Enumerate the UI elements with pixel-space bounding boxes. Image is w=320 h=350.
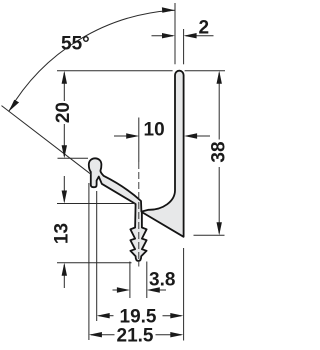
svg-text:55°: 55° bbox=[61, 34, 90, 55]
dimension line 10, left segment bbox=[114, 135, 137, 137]
arrowhead dim 19.5 right bbox=[170, 313, 183, 318]
arrowhead dim 13 bottom bbox=[62, 263, 67, 276]
dimension line 13, lower outside segment bbox=[63, 265, 65, 288]
arrowhead dim 21.5 left bbox=[89, 332, 102, 337]
arrowhead dim 19.5 left bbox=[97, 313, 110, 318]
55 degree reference line bbox=[2, 106, 92, 175]
dimension line 3.8, right outside segment bbox=[149, 289, 166, 291]
dimension line 20, upper segment bbox=[63, 73, 65, 101]
svg-text:19.5: 19.5 bbox=[120, 306, 157, 327]
svg-text:21.5: 21.5 bbox=[117, 325, 154, 346]
dimension line 20, lower segment bbox=[63, 124, 65, 156]
arrowhead dim 20 top bbox=[62, 71, 67, 84]
dimension line 38, upper segment bbox=[218, 73, 220, 140]
extension line wall right edge (for dim 2) bbox=[183, 29, 185, 64]
extension line bulb left (for dim 21.5) bbox=[88, 183, 90, 340]
dimension line 3.8, left outside segment bbox=[113, 289, 128, 291]
extension line wall left edge (for dim 2 and 55 deg arc) bbox=[174, 3, 176, 64]
arrowhead dim 2 right bbox=[184, 33, 197, 38]
extension line wall right lower (for dims 19.5 and 21.5) bbox=[183, 248, 185, 341]
55 degree dimension arc bbox=[9, 10, 175, 111]
extension line for dim 10 (barb axis, solid upper part) bbox=[138, 118, 140, 163]
extension line flange underside (for dim 13) bbox=[57, 203, 135, 205]
arrowhead dim 38 top bbox=[217, 71, 222, 84]
extension line barb right (for dim 3.8) bbox=[146, 262, 148, 299]
svg-text:38: 38 bbox=[208, 141, 229, 162]
extension line bulb top (for dim 20) bbox=[58, 157, 89, 159]
extension line barb tip (for dim 13) bbox=[57, 262, 132, 264]
arrowhead dim 3.8 right bbox=[147, 287, 160, 292]
dimension line 21.5, right segment bbox=[156, 334, 182, 336]
svg-text:13: 13 bbox=[52, 223, 73, 244]
svg-text:3.8: 3.8 bbox=[149, 270, 175, 291]
extension line wall top right (for dim 38) bbox=[185, 70, 225, 72]
arrowhead 55 deg arc bottom bbox=[9, 100, 20, 112]
svg-text:20: 20 bbox=[53, 102, 74, 123]
centerline of barb stem (dashed) bbox=[138, 162, 140, 267]
extension line foot right (for dim 19.5) bbox=[96, 191, 98, 321]
arrowhead dim 10 right bbox=[184, 133, 197, 138]
svg-text:10: 10 bbox=[144, 120, 165, 141]
arrowhead dim 21.5 right bbox=[170, 332, 183, 337]
dimension line 21.5, left segment bbox=[91, 334, 115, 336]
arrowhead dim 3.8 left bbox=[117, 287, 130, 292]
extension line barb left (for dim 3.8) bbox=[129, 262, 131, 299]
extension line wall top left (for dim 20) bbox=[57, 70, 173, 72]
arrowhead 55 deg arc top bbox=[162, 7, 175, 13]
svg-text:2: 2 bbox=[199, 17, 210, 38]
profile cross-section body (wall, flange, bulb, foot, fir-tree barb stem) bbox=[89, 71, 184, 261]
arrowhead dim 13 top bbox=[62, 191, 67, 204]
arrowhead dim 20 bottom bbox=[62, 145, 67, 158]
dimension line 19.5, right segment bbox=[163, 315, 182, 317]
arrowhead dim 38 bottom bbox=[217, 222, 222, 235]
arrowhead dim 2 left bbox=[162, 33, 175, 38]
dimension line 2, left segment bbox=[152, 35, 174, 37]
dimension line 19.5, left segment bbox=[99, 315, 114, 317]
extension line profile bottom tip (for dim 38) bbox=[194, 234, 225, 236]
dimension line 2, right segment bbox=[186, 35, 214, 37]
dimension line 13, upper outside segment bbox=[63, 176, 65, 202]
arrowhead dim 10 left bbox=[126, 133, 139, 138]
dimension line 38, lower segment bbox=[218, 167, 220, 233]
dimension line 10, right segment bbox=[186, 135, 210, 137]
